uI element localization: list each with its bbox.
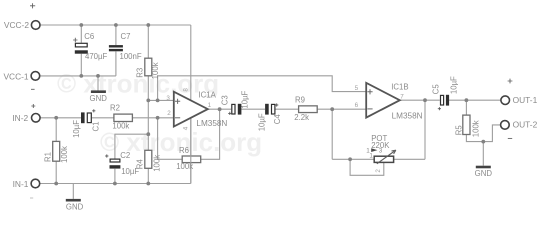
- capacitor C2 (- plate): [110, 165, 121, 168]
- svg-text:OUT-2: OUT-2: [513, 120, 538, 130]
- junction C2 branch: [146, 132, 150, 136]
- wire IC1A output: [208, 108, 231, 110]
- svg-text:3: 3: [379, 147, 383, 154]
- capacitor C1 (- plate): [81, 112, 85, 123]
- svg-text:VCC-2: VCC-2: [4, 20, 29, 30]
- resistor R3: [145, 58, 152, 76]
- svg-text:R6: R6: [179, 146, 189, 155]
- junction VCC-2/C7: [114, 23, 118, 27]
- plus mark above IN-2: [31, 104, 35, 108]
- svg-text:LM358N: LM358N: [392, 112, 423, 121]
- terminal OUT-1: [501, 96, 510, 105]
- svg-text:3: 3: [166, 95, 170, 102]
- wire C5 to OUT-1: [449, 99, 501, 101]
- terminal OUT-2: [501, 121, 510, 130]
- wire IC1A pin 3 input: [148, 99, 174, 101]
- svg-text:10µF: 10µF: [121, 167, 139, 176]
- wire R5 bottom to OUT-2: [466, 125, 500, 142]
- junction VCC-2/C6: [79, 23, 83, 27]
- svg-text:C5: C5: [432, 84, 441, 95]
- svg-text:C7: C7: [121, 32, 131, 41]
- wire IN-2 to C1: [40, 117, 81, 119]
- wire R1 bottom lead: [55, 161, 57, 183]
- op-amp IC1A: [174, 92, 208, 127]
- capacitor C1 (+ plate): [87, 113, 91, 123]
- wire C7 bottom lead: [115, 52, 117, 76]
- wire R1 top lead: [55, 118, 57, 142]
- wire link IC1A pin3 to IC1B pin5: [158, 76, 367, 101]
- junction output/R6: [218, 107, 222, 111]
- svg-text:IC1B: IC1B: [391, 83, 408, 92]
- wire POT wiper loop: [350, 159, 384, 175]
- junction ground rail/R1: [54, 182, 58, 186]
- junction pin3/link wire: [156, 99, 160, 103]
- wire R6 to IC1A output: [201, 109, 220, 159]
- capacitor C7 plate 1: [109, 45, 123, 47]
- wire C7 top lead: [115, 25, 117, 45]
- junction pin2/feedback: [156, 116, 160, 120]
- plus mark above OUT-1: [508, 79, 513, 84]
- wire R2 to IC1A pin 2: [132, 117, 173, 119]
- terminal IN-1: [31, 179, 40, 188]
- ground symbol (supply): [91, 90, 106, 93]
- minus mark below IN-1: [30, 197, 33, 199]
- svg-text:R1: R1: [43, 152, 52, 162]
- capacitor C4 (+ plate): [272, 104, 275, 114]
- C2 polarity mark: [105, 154, 108, 157]
- svg-text:6: 6: [355, 102, 359, 109]
- C4 polarity mark: [275, 103, 278, 106]
- svg-text:5: 5: [355, 85, 359, 92]
- terminal VCC-2: [31, 21, 40, 30]
- svg-text:GND: GND: [90, 94, 108, 103]
- op-amp IC1B: [366, 83, 400, 118]
- junction R3/R4/pin3: [146, 99, 150, 103]
- svg-text:100k: 100k: [112, 121, 129, 130]
- capacitor C3 (- plate): [238, 104, 242, 115]
- svg-text:C1: C1: [92, 122, 101, 132]
- ground symbol (output): [476, 166, 491, 169]
- wire VCC-1 rail: [40, 75, 116, 77]
- svg-text:C4: C4: [273, 114, 282, 125]
- svg-text:100k: 100k: [151, 62, 160, 79]
- C5 polarity mark: [438, 107, 441, 110]
- wire C4 to R9: [275, 108, 299, 110]
- C3 polarity mark: [228, 112, 231, 115]
- capacitor C5 (- plate): [446, 95, 449, 106]
- svg-text:OUT-1: OUT-1: [513, 95, 538, 105]
- wire GND stub (input): [72, 184, 74, 199]
- svg-text:C2: C2: [120, 151, 130, 160]
- wire R3 bottom lead: [147, 76, 149, 101]
- IC1B + input mark: [367, 89, 372, 94]
- svg-text:100k: 100k: [60, 146, 69, 163]
- wire C2 bottom lead: [114, 169, 116, 184]
- svg-text:100k: 100k: [471, 120, 480, 137]
- IC1B - input mark: [367, 108, 372, 110]
- svg-text:10µF: 10µF: [257, 113, 266, 131]
- wire C6 bottom lead: [80, 54, 82, 76]
- wire IC1A pin 4 stub over R6 body: [190, 118, 192, 183]
- wire C3 to C4: [241, 108, 265, 110]
- svg-text:VCC-1: VCC-1: [3, 72, 28, 82]
- junction ground rail/C2: [113, 182, 117, 186]
- svg-text:2: 2: [375, 169, 382, 173]
- wire R9 to IC1B pin 6: [317, 108, 366, 110]
- wire VCC-2 rail: [40, 24, 191, 26]
- resistor R5: [463, 115, 470, 134]
- IC1A + input mark: [175, 99, 180, 104]
- wire GND stub (supply): [97, 76, 99, 91]
- IC1A - input mark: [175, 117, 180, 119]
- svg-text:LM358N: LM358N: [196, 119, 227, 128]
- wire IC1B output to C5: [400, 99, 440, 101]
- potentiometer POT 220K body: [374, 156, 393, 162]
- svg-text:GND: GND: [475, 169, 493, 178]
- junction VCC-1/C6: [79, 74, 83, 78]
- terminal VCC-1: [31, 72, 40, 81]
- svg-text:IN-2: IN-2: [12, 113, 28, 123]
- wire POT to IC1B output: [424, 100, 426, 159]
- wire R3 top lead: [147, 25, 149, 58]
- junction ground rail/R4: [146, 182, 150, 186]
- svg-text:IC1A: IC1A: [199, 91, 217, 100]
- junction R5/OUT-2/GND: [481, 140, 485, 144]
- wire pin6 node down to POT: [331, 109, 333, 159]
- svg-text:R5: R5: [455, 125, 464, 136]
- ground symbol (input): [66, 199, 81, 202]
- wire R4 bottom lead: [147, 168, 149, 183]
- wire IC1A pin 4 ground stub: [190, 118, 192, 183]
- svg-text:R9: R9: [295, 96, 305, 105]
- capacitor C5 (+ plate): [441, 95, 444, 105]
- wire POT pin 3 side: [394, 158, 425, 160]
- junction pin6/POT: [330, 107, 334, 111]
- junction IC1B output/POT: [423, 98, 427, 102]
- plus mark above VCC-2: [30, 3, 35, 8]
- wire POT pin 1 side: [332, 158, 374, 160]
- svg-text:1: 1: [369, 152, 373, 159]
- C6 polarity mark: [73, 38, 77, 42]
- svg-text:2: 2: [167, 110, 171, 117]
- resistor R4: [145, 150, 152, 168]
- svg-text:2.2k: 2.2k: [294, 113, 309, 122]
- junction VCC-1/GND: [96, 74, 100, 78]
- wire feedback node to R6: [158, 118, 183, 160]
- resistor R6: [182, 156, 201, 163]
- C1 polarity mark: [92, 109, 95, 112]
- resistor R1: [53, 141, 60, 161]
- svg-text:7: 7: [400, 94, 404, 101]
- svg-text:R2: R2: [110, 104, 120, 113]
- svg-text:10µF: 10µF: [240, 90, 249, 108]
- junction POT pin1/wiper: [348, 157, 352, 161]
- minus mark below VCC-1: [31, 88, 35, 90]
- wire R3/R4 vertical: [147, 100, 149, 150]
- terminal IN-2: [32, 114, 41, 123]
- wire IN-1 ground rail: [40, 183, 191, 185]
- wire C2 top branch: [115, 134, 148, 158]
- svg-text:10µF: 10µF: [449, 76, 458, 94]
- svg-text:100nF: 100nF: [120, 52, 142, 61]
- wire C1 to R2: [92, 117, 114, 119]
- svg-text:C6: C6: [84, 32, 94, 41]
- capacitor C4 (- plate): [265, 104, 269, 115]
- svg-text:470µF: 470µF: [85, 52, 108, 61]
- junction IN-2/R1: [54, 116, 58, 120]
- svg-text:100k: 100k: [152, 155, 161, 172]
- wire GND stub (output): [482, 142, 484, 166]
- capacitor C2 (+ plate): [110, 159, 120, 162]
- svg-text:IN-1: IN-1: [13, 179, 29, 189]
- svg-text:10µF: 10µF: [72, 120, 81, 138]
- svg-text:8: 8: [183, 88, 190, 92]
- potentiometer wiper arrow: [377, 151, 395, 164]
- capacitor C3 (+ plate): [232, 104, 235, 114]
- svg-text:4: 4: [183, 126, 190, 130]
- svg-text:1: 1: [208, 102, 212, 109]
- resistor R2: [114, 114, 132, 121]
- wire C6 top lead: [80, 25, 82, 43]
- junction VCC-2/R3: [146, 23, 150, 27]
- svg-text:R3: R3: [135, 68, 144, 78]
- svg-text:GND: GND: [66, 203, 84, 212]
- pot arrow 1-to-3: [371, 148, 377, 152]
- svg-text:C3: C3: [220, 95, 229, 105]
- capacitor C7 plate 2: [109, 49, 123, 51]
- capacitor C6 (- plate): [75, 50, 88, 53]
- wire R5 top lead: [465, 100, 467, 115]
- wire IC1A pin 8 supply stub: [190, 25, 192, 100]
- capacitor C6 (+ plate): [75, 43, 87, 47]
- minus mark below OUT-1: [508, 137, 512, 139]
- resistor R9: [299, 106, 318, 113]
- junction output/R5: [465, 98, 469, 102]
